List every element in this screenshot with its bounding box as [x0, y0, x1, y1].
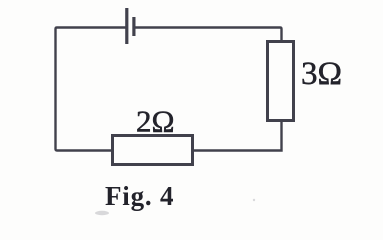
resistor R2 (2 ohm, bottom horizontal): [113, 136, 193, 165]
battery long plate: [125, 8, 128, 44]
battery B1 (cell): [127, 8, 134, 44]
wire: top run from battery to top-right corner, down into R1: [135, 28, 282, 42]
resistor R1 (3 ohm, right vertical): [268, 42, 294, 121]
svg-text:Fig. 4: Fig. 4: [105, 181, 174, 211]
svg-text:3Ω: 3Ω: [301, 56, 342, 92]
wire: left branch (top-left corner, left side, bottom run to R1): [56, 28, 282, 151]
svg-text:2Ω: 2Ω: [136, 104, 175, 139]
battery short plate: [132, 17, 135, 36]
